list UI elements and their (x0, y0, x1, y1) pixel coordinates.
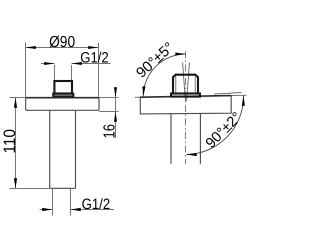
svg-text:G1/2: G1/2 (80, 49, 109, 66)
svg-text:90°±2°: 90°±2° (203, 109, 245, 151)
svg-text:16: 16 (101, 124, 118, 139)
svg-text:G1/2: G1/2 (82, 196, 111, 213)
svg-text:110: 110 (1, 129, 19, 154)
svg-text:90°±5°: 90°±5° (134, 40, 178, 82)
svg-text:Ø90: Ø90 (49, 34, 75, 51)
